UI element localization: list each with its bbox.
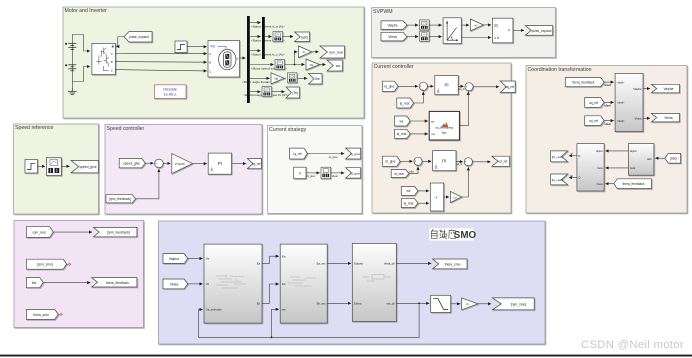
sum2 circle	[465, 83, 473, 92]
svg-text:Ua_estimate: Ua_estimate	[206, 308, 222, 312]
svg-text:Ebeta: Ebeta	[354, 302, 362, 306]
wire: Ea_est to PLL	[327, 262, 351, 264]
wire: bus to mux is_c	[250, 50, 261, 52]
wire: ZOH2 to cart2polar	[429, 36, 442, 38]
svg-text:uq_0: uq_0	[459, 87, 465, 91]
sum4 circle	[464, 158, 472, 167]
svg-text:Np: Np	[274, 77, 278, 81]
Goto tag [rpm_smo]	[492, 298, 534, 310]
wire: Eb_est to PLL	[327, 302, 351, 304]
wire: step to motor Tm	[187, 46, 207, 48]
svg-text:alpha: alpha	[630, 149, 637, 153]
wire: Vbeta to ZOH2	[407, 36, 418, 38]
svg-text:A: A	[209, 52, 211, 56]
wire: D out to id_real goto	[569, 155, 577, 157]
junction on we_pll wire	[418, 302, 420, 304]
wire: saturation to gain	[451, 303, 460, 305]
svg-text:id_give: id_give	[350, 171, 360, 175]
svg-text:thera_feedback: thera_feedback	[573, 81, 595, 85]
svg-text:-K-: -K-	[466, 302, 470, 306]
subsystem SMO observer block1	[204, 244, 262, 323]
svg-text:ud_ref: ud_ref	[589, 119, 598, 123]
svg-text:idta: idta	[410, 170, 415, 174]
svg-text:P: P	[508, 29, 510, 33]
svg-text:+: +	[65, 63, 67, 67]
svg-text:1e-06 s.: 1e-06 s.	[164, 93, 177, 97]
svg-text:+: +	[65, 42, 67, 46]
wire: Vbeta out	[643, 117, 650, 119]
svg-text:Vb: Vb	[206, 282, 210, 286]
svg-text:Va: Va	[206, 257, 210, 261]
step block (load torque)	[175, 41, 187, 53]
From tag thera_smo (dangling)	[26, 309, 58, 319]
svg-text:ud_ref: ud_ref	[498, 160, 507, 164]
svg-text:A: A	[111, 52, 113, 56]
svg-text:D: D	[578, 154, 580, 158]
wire: rate transition to id_give goto	[331, 172, 345, 174]
subsystem PLL block3	[352, 243, 396, 321]
SVPWM generator block	[492, 18, 513, 43]
svg-text:Eb: Eb	[282, 282, 286, 286]
svg-text:beta: beta	[597, 166, 603, 170]
svg-text:uq_ref: uq_ref	[589, 101, 598, 105]
From tag thera_feedback (coord)	[565, 78, 604, 87]
From tag iq_real2 (product input)	[401, 199, 418, 208]
step block (speed reference)	[25, 160, 38, 174]
svg-text:ideal: ideal	[605, 104, 611, 108]
wire: sum4 to ud_ref goto	[472, 161, 490, 163]
wire: scope to abc goto	[283, 36, 294, 38]
From tag Vbeta2 (SMO)	[163, 279, 188, 289]
wire: iq_real2 to product	[418, 202, 429, 204]
panel: Coordination transformation area	[526, 66, 687, 214]
Goto tag rpm_real	[320, 46, 345, 58]
svg-text:pulse_expand: pulse_expand	[129, 35, 149, 39]
wire: gain to theta scope	[284, 77, 286, 79]
wire: beta to ab2dq	[606, 167, 629, 169]
svg-text:∠U: ∠U	[494, 36, 500, 40]
signal spec block (speed reference)	[46, 158, 61, 176]
svg-text:Tm: Tm	[210, 45, 215, 49]
svg-text:[id_real]: [id_real]	[552, 155, 563, 159]
scope: torque	[262, 87, 272, 97]
ground symbol	[68, 88, 77, 95]
DC source battery 1	[65, 42, 76, 50]
dangling stub on thera_smo	[58, 313, 60, 315]
wire: the to thera_feedback goto	[43, 282, 90, 284]
wire: iq_give to sum1	[398, 85, 418, 87]
wire: PI speed to iq_ref goto	[232, 163, 246, 165]
gain Np2 (electrical angle)	[271, 73, 284, 84]
Goto tag [rpm_feedback]	[93, 227, 136, 236]
subsystem alphabeta to dq	[577, 144, 604, 191]
svg-text:CSDN @Neil motor: CSDN @Neil motor	[581, 339, 684, 351]
wire: rpm_real to rpm_feedback goto	[53, 231, 92, 233]
wire: rpm feedback up into sum5	[136, 169, 159, 199]
Goto tag pulse_expand (SVPWM)	[525, 26, 552, 36]
From tag iq_ref2 (current strategy)	[290, 148, 308, 159]
svg-text:fcn: fcn	[442, 131, 446, 135]
From tag Vbeta (SVPWM)	[381, 32, 407, 41]
wire: sum1 to PI q	[427, 85, 433, 87]
svg-text:thera_smo: thera_smo	[445, 262, 461, 266]
wire: lower tap to inverter input 2	[72, 67, 90, 82]
wire: DC link vertical chain	[71, 38, 73, 88]
wire: we2 to product	[418, 190, 429, 192]
svg-text:Ea_est: Ea_est	[317, 262, 326, 266]
svg-text:0: 0	[299, 171, 301, 175]
svg-text:we: we	[406, 189, 410, 193]
SMO title annotation white box	[429, 228, 474, 240]
Goto tag we	[327, 60, 343, 71]
svg-text:speed_give: speed_give	[79, 165, 96, 169]
rate transition block (id)	[321, 167, 331, 179]
bus selector bar	[247, 16, 250, 103]
Goto tag [id_give]	[346, 168, 361, 178]
title glyph shi	[439, 229, 447, 238]
subsystem dq to alphabeta	[615, 73, 643, 131]
svg-text:id_give: id_give	[385, 160, 395, 164]
wire: ud_ref to dq2ab block	[604, 120, 614, 122]
svg-text:(Te): (Te)	[292, 91, 298, 95]
svg-text:Coordination transformation: Coordination transformation	[528, 67, 592, 73]
svg-text:Valpha: Valpha	[664, 87, 674, 91]
wire: ZOH1 to cart2polar	[429, 24, 442, 26]
PI controller speed	[208, 153, 231, 174]
scope: rotor angle	[288, 73, 298, 83]
svg-text:Q: Q	[578, 176, 580, 180]
panel: Speed controller area	[105, 125, 262, 215]
svg-text:PI: PI	[442, 158, 446, 163]
zero-order-hold block 1	[420, 20, 430, 30]
svg-text:<Stator current is_c (A)>: <Stator current is_c (A)>	[251, 53, 285, 57]
wire: sum3 to PI d	[422, 160, 431, 162]
From tag the (feedback panel)	[26, 278, 43, 288]
panel: Speed reference area	[14, 124, 99, 214]
svg-text:[iq_real]: [iq_real]	[552, 178, 563, 182]
svg-text:Current strategy: Current strategy	[269, 127, 307, 133]
wire: we_pll to saturation	[396, 302, 429, 304]
wire: observer Eb to adaptive block	[262, 284, 279, 303]
svg-text:Ea: Ea	[282, 254, 286, 258]
wire: gain to PI speed	[193, 163, 207, 165]
title glyph zi	[431, 229, 437, 238]
gain -K- (SVPWM)	[470, 19, 483, 31]
From tag ud_ref2	[585, 116, 604, 126]
svg-text:theal: theal	[605, 83, 611, 87]
wire: Valpha out	[643, 88, 650, 90]
powergui Discrete block	[155, 85, 187, 99]
Goto tag thera_feedback	[92, 278, 137, 287]
svg-text:we_pll: we_pll	[387, 302, 395, 306]
mux bar (abc currents)	[262, 17, 265, 59]
panel: Current controller area	[372, 63, 511, 213]
svg-text:Np: Np	[310, 63, 314, 67]
junction on wm wire	[294, 64, 296, 66]
junction on feedback bottom run	[271, 336, 273, 338]
DC source battery 2	[65, 63, 76, 71]
dangling stub on rpm_smo	[67, 263, 69, 265]
Goto tag thera_smo (SMO)	[433, 259, 467, 269]
wire: iq_real up into sum1	[414, 92, 424, 103]
svg-text:-K-: -K-	[302, 50, 306, 54]
svg-text:pulse_expand: pulse_expand	[532, 29, 552, 33]
title glyph ying	[449, 229, 456, 238]
subsystem adaptive filter block2	[280, 244, 327, 323]
svg-text:Ld: Ld	[453, 195, 457, 199]
inverter gate port marker g	[112, 46, 114, 48]
From tag iq_give (current ctrl)	[382, 81, 398, 91]
svg-text:Vbeta: Vbeta	[634, 117, 642, 121]
svg-text:iq_real: iq_real	[400, 101, 410, 105]
svg-text:Vbeta: Vbeta	[170, 282, 179, 286]
svg-text:ideal: ideal	[605, 122, 611, 126]
svg-text:we: we	[282, 307, 286, 311]
svg-text:we: we	[399, 119, 403, 123]
wire: mux out to current scope	[265, 36, 272, 38]
svg-text:thera_smo: thera_smo	[33, 313, 49, 317]
svg-text:Discrete: Discrete	[163, 88, 177, 92]
wire: scope to the goto	[297, 77, 307, 79]
From tag [abc]2 (left-facing)	[665, 153, 681, 163]
svg-text:iq_give: iq_give	[329, 155, 338, 159]
wire: id_real2 up into sum3	[409, 167, 418, 174]
wire: inverter C to motor C	[115, 70, 206, 71]
wire: inverter B to motor B	[115, 61, 206, 64]
svg-text:<deal>: <deal>	[617, 101, 625, 105]
wire: wm to Np gain	[285, 64, 305, 66]
subsystem abc to alphabeta	[628, 144, 654, 176]
wire: Q out to iq_real goto	[569, 177, 577, 179]
panel: SVPWM area	[372, 8, 556, 58]
wire: branch up to rpm gain	[295, 52, 298, 65]
svg-text:Ealpha: Ealpha	[354, 262, 363, 266]
sum5 circle	[155, 159, 164, 169]
svg-text:[rpm_smo]: [rpm_smo]	[511, 302, 527, 306]
wire: step to rate block	[38, 165, 45, 167]
wire: abc tag to abc2ab block	[655, 157, 664, 159]
From tag speed_give (speed ctrl)	[119, 159, 145, 168]
Goto tag [abc]	[295, 32, 310, 42]
wire: Ld gain up into sum4	[462, 167, 469, 197]
svg-text:PI: PI	[218, 161, 222, 166]
wire: speed_give to sum5	[145, 162, 153, 164]
wire: gain to rpm_real	[312, 51, 319, 53]
wire: angle out to svpwm angle input	[461, 37, 491, 39]
cartesian to polar block	[443, 18, 461, 44]
Goto tag speed_give	[71, 160, 98, 172]
Goto tag the	[309, 74, 323, 85]
saturation block	[431, 295, 451, 312]
svg-text:SVPWM: SVPWM	[373, 9, 393, 15]
wire: Valpha2 to observer	[188, 258, 203, 260]
svg-text:we: we	[431, 120, 435, 123]
panel: Current strategy area	[268, 126, 363, 214]
From tag uq_ref2	[585, 98, 604, 108]
svg-text:Motor and Inverter: Motor and Inverter	[65, 8, 108, 14]
svg-text:[rpm_smo]: [rpm_smo]	[37, 263, 53, 267]
MATLAB function block uq_decoupling	[429, 111, 459, 140]
wire: id_real to fcn	[410, 133, 428, 135]
wire: Valpha to ZOH1	[407, 24, 418, 26]
wire: bus Te row to scope	[250, 91, 261, 93]
wire: top elbow to inverter input 1	[72, 35, 90, 52]
Goto tag [iq_real] (left-facing)	[551, 174, 568, 185]
From tag thera_feedback2 (left-facing)	[614, 179, 652, 189]
wire: fcn out up into sum2	[459, 92, 468, 126]
svg-text:Speed controller: Speed controller	[107, 126, 145, 132]
svg-text:we: we	[336, 64, 340, 68]
product block	[430, 183, 443, 211]
svg-text:<deal>: <deal>	[617, 119, 625, 123]
svg-text:iabc: iabc	[647, 157, 653, 161]
svg-text:Current controller: Current controller	[374, 64, 414, 70]
wire: rate block to speed_give goto	[61, 165, 69, 167]
scope: motor speed	[275, 60, 285, 70]
panel: adaptive SMO area	[159, 221, 546, 344]
svg-text:theta: theta	[597, 182, 603, 186]
svg-text:B: B	[111, 60, 113, 64]
wire: gain to svpwm |U| input	[483, 24, 491, 26]
gain 2*pi/60	[172, 154, 193, 174]
From tag [rpm_feedback]	[106, 195, 136, 203]
svg-text:C: C	[111, 68, 113, 72]
svg-text:iq_ref: iq_ref	[294, 152, 302, 156]
svg-text:Speed reference: Speed reference	[15, 125, 53, 131]
svg-text:<deal>: <deal>	[617, 80, 625, 84]
svg-text:rpm_real: rpm_real	[329, 51, 343, 55]
From tag rpm_real (feedback panel)	[26, 227, 53, 238]
svg-text:speed_give: speed_give	[123, 162, 140, 166]
gain -K- (SMO rpm)	[462, 298, 478, 310]
svg-text:-K-: -K-	[474, 23, 478, 27]
From tag id_real2	[391, 170, 409, 178]
wire: uq_ref to dq2ab block	[604, 101, 614, 103]
wire: scope to Te goto	[272, 91, 285, 93]
svg-text:2*pi/60: 2*pi/60	[175, 162, 185, 166]
wire: theta feedback to ab2dq	[606, 183, 614, 185]
Goto tag Vbeta	[651, 113, 679, 122]
svg-text:rpm_real: rpm_real	[32, 231, 45, 235]
svg-text:|U|: |U|	[494, 23, 498, 27]
svg-text:the: the	[315, 77, 320, 81]
Goto tag uq_ref	[500, 81, 515, 93]
svg-text:C: C	[209, 69, 211, 73]
wire: iq_ref to iq_give goto	[307, 153, 344, 155]
panel: Motor and Inverter area	[63, 7, 364, 118]
svg-text:<q>: <q>	[431, 132, 436, 136]
wire: id_give to sum3	[400, 160, 412, 162]
svg-text:<Stator current is_a (A)>: <Stator current is_a (A)>	[251, 24, 285, 28]
wire: svpwm P out to pulse goto	[513, 29, 524, 31]
wire: Np gain to we goto	[320, 64, 326, 66]
wire: we to fcn	[410, 120, 428, 122]
wire: constant to rate transition	[306, 172, 320, 174]
scope: stator currents	[273, 32, 283, 42]
svg-text:[abc]: [abc]	[301, 35, 308, 39]
wire: PI d to sum4, label ud_0	[456, 160, 463, 163]
svg-text:alpha: alpha	[596, 149, 603, 153]
wire: observer Ea to adaptive block	[262, 256, 279, 263]
svg-text:[rpm_feedback]: [rpm_feedback]	[107, 231, 130, 235]
From tag iq_real (current ctrl)	[397, 98, 414, 108]
gain -K- (rad/s to rpm)	[299, 46, 312, 58]
wire: bus to mux is_b	[250, 36, 261, 38]
From tag id_real (fcn input)	[395, 129, 411, 138]
constant 0 block	[294, 167, 306, 179]
svg-text:thera_feedback: thera_feedback	[623, 182, 645, 186]
svg-text:[rpm_feedback]: [rpm_feedback]	[109, 197, 131, 201]
wire: theta to dq2ab block	[604, 81, 614, 83]
svg-text:id_real: id_real	[397, 132, 407, 136]
wire: bus wm row to scope	[250, 64, 274, 66]
svg-text:Ea: Ea	[257, 262, 261, 266]
wire: theta_pll to thera_smo goto	[396, 262, 431, 264]
wire: sum2 to uq_ref goto	[473, 86, 499, 88]
From tag we2 (product input)	[401, 186, 418, 195]
From tag [rpm_smo] (dangling)	[26, 259, 66, 269]
svg-text:iq_real: iq_real	[404, 202, 414, 206]
svg-text:id_give: id_give	[307, 174, 316, 178]
panel: feedback tags area (untitled)	[14, 221, 144, 328]
wire: feedback branch to we input	[272, 309, 279, 337]
svg-text:uq_ref: uq_ref	[505, 85, 514, 89]
wire: motor m output to bus	[240, 57, 246, 59]
svg-text:Eb: Eb	[257, 302, 261, 306]
sum1 circle	[419, 82, 427, 91]
svg-text:the: the	[32, 281, 37, 285]
svg-text:iq_give: iq_give	[384, 85, 394, 89]
svg-text:Vbeta: Vbeta	[388, 35, 397, 39]
svg-text:Eb_est: Eb_est	[317, 302, 326, 306]
wire: bus to mux is_a	[250, 22, 261, 24]
svg-text:Valpha: Valpha	[169, 257, 179, 261]
svg-text:iq_ref: iq_ref	[253, 162, 261, 166]
svg-text:Valpha: Valpha	[387, 23, 397, 27]
bottom rule line	[0, 355, 692, 357]
wire: bus thetam row to Np gain2	[250, 77, 270, 79]
sum3 circle	[414, 157, 422, 166]
From tag Valpha (SVPWM)	[381, 21, 407, 30]
From tag we (fcn input)	[395, 116, 411, 126]
wire: inverter A to motor A	[115, 53, 206, 55]
svg-text:ideal: ideal	[332, 174, 338, 178]
svg-text:beta: beta	[630, 166, 636, 170]
From tag id_give	[382, 156, 400, 166]
svg-text:x: x	[436, 196, 438, 200]
PI controller q-axis	[435, 76, 458, 95]
From tag pulse_expand	[124, 32, 152, 43]
Goto tag ud_ref	[492, 156, 510, 166]
svg-text:iq_give: iq_give	[350, 152, 360, 156]
Goto tag Valpha	[651, 84, 679, 93]
wire: alpha to ab2dq	[606, 150, 629, 152]
gain Ld	[450, 191, 461, 202]
svg-text:Valpha: Valpha	[633, 87, 642, 91]
PMSM motor block	[208, 41, 240, 78]
svg-text:theta_pll: theta_pll	[384, 262, 395, 266]
svg-text:PI: PI	[444, 83, 448, 88]
wire: PI q to sum2, label uq_0	[458, 85, 463, 87]
wire: product to Ld gain	[444, 196, 449, 198]
wire: pulse_expand to inverter gate	[116, 37, 124, 47]
gain Np (electrical speed)	[306, 59, 320, 70]
inverter bridge block	[92, 43, 116, 74]
Goto tag [iq_give]	[346, 148, 361, 159]
Goto tag (Te)	[286, 87, 300, 98]
wire: sum5 to gain	[163, 162, 170, 164]
Goto tag iq_ref	[247, 159, 261, 169]
